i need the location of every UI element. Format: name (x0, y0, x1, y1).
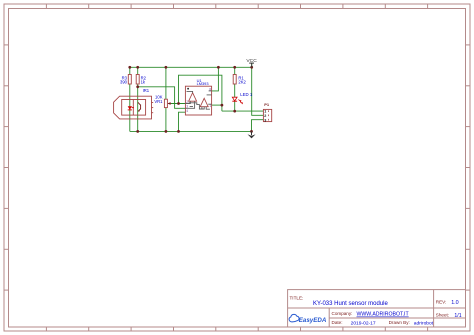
svg-text:TITLE:: TITLE: (290, 295, 304, 300)
frame column ticks top (46, 4, 427, 9)
junction R2 top rail (136, 66, 139, 69)
svg-text:4: 4 (186, 109, 188, 113)
junction R2 bottom signal (136, 85, 139, 88)
junction VR1 bottom ground rail (165, 130, 168, 133)
wire pot wiper to U1 pin2 (168, 103, 185, 105)
svg-text:Sheet:: Sheet: (436, 312, 449, 317)
wire VCC stub (251, 63, 253, 68)
ground (248, 131, 256, 138)
wire U1 gnd to rail (179, 112, 186, 131)
svg-text:2019-02-17: 2019-02-17 (351, 321, 376, 327)
svg-text:1.0: 1.0 (451, 300, 459, 306)
potentiometer VR1 (154, 95, 171, 108)
svg-text:WWW.ADRIROBOT.IT: WWW.ADRIROBOT.IT (357, 312, 410, 318)
frame row ticks right (466, 45, 471, 290)
photo sensor IR1 (114, 96, 154, 119)
junction R1 top rail (233, 66, 236, 69)
junction ground node (250, 130, 253, 133)
svg-text:1: 1 (209, 104, 211, 108)
svg-text:REV:: REV: (436, 299, 447, 304)
junction U1 gnd ground rail (177, 130, 180, 133)
junction U1 output (221, 104, 224, 107)
svg-text:adrirobot: adrirobot (414, 321, 434, 327)
svg-text:2: 2 (186, 100, 188, 104)
svg-text:Date:: Date: (332, 320, 343, 325)
junction IR1 emitter ground rail (136, 130, 139, 133)
wire VCC column to P1 pin2 (252, 67, 264, 115)
svg-text:EasyEDA: EasyEDA (299, 317, 327, 324)
IR LED inside sensor (128, 106, 134, 110)
svg-text:390: 390 (120, 80, 128, 85)
op-amp U1 LM393 (185, 78, 211, 115)
frame column ticks bottom (46, 327, 427, 331)
wire ground bottom rail (130, 130, 252, 132)
comparator B triangle (200, 98, 208, 106)
EasyEDA logo (289, 314, 327, 324)
wire R1 LED column (234, 67, 236, 111)
frame row ticks left (4, 45, 9, 290)
junction U1 pin8 top rail (217, 66, 220, 69)
wire U1 output stub (212, 104, 222, 106)
node VCC (246, 58, 257, 67)
resistor R2 (136, 75, 139, 85)
svg-text:2: 2 (264, 114, 266, 118)
wire R2 column (137, 67, 139, 131)
junction wiper feedback (177, 102, 180, 105)
junction VCC node (250, 66, 253, 69)
phototransistor inside sensor (138, 102, 141, 111)
title block (288, 290, 466, 327)
svg-text:KY-033 Hunt sensor module: KY-033 Hunt sensor module (313, 301, 388, 307)
svg-text:8: 8 (209, 88, 211, 92)
connector P1 (263, 102, 271, 122)
wire feedback loop (179, 75, 222, 111)
pin numbers (186, 88, 211, 113)
svg-text:VR1: VR1 (154, 99, 163, 104)
svg-text:IR1: IR1 (143, 88, 150, 93)
wire VCC top rail (130, 66, 252, 68)
junction VR1 top rail (165, 66, 168, 69)
resistor R1 (233, 75, 236, 85)
wire VCC drop to U1 pin8 (212, 67, 219, 91)
svg-text:Company:: Company: (332, 311, 353, 316)
wire P1 pin3 to ground (252, 120, 264, 132)
svg-text:Drawn By:: Drawn By: (389, 320, 410, 325)
svg-text:P1: P1 (264, 102, 270, 107)
wire signal to P1 pin1 (222, 110, 264, 112)
svg-text:LM393: LM393 (197, 81, 209, 86)
svg-text:2K2: 2K2 (238, 80, 246, 85)
svg-text:1/1: 1/1 (454, 313, 461, 319)
svg-text:3: 3 (264, 118, 266, 122)
LED LED1 (232, 97, 242, 104)
svg-text:LED 1: LED 1 (240, 92, 253, 97)
wire pot column (165, 67, 167, 131)
junction LED1 bottom (233, 110, 236, 113)
junction R3 top rail (128, 66, 131, 69)
wire signal R2 to U1 pin3 (138, 87, 186, 109)
resistor R3 (128, 75, 131, 85)
comparator A triangle (189, 93, 197, 102)
wire R3 column (129, 67, 131, 131)
internal routing (185, 91, 211, 109)
